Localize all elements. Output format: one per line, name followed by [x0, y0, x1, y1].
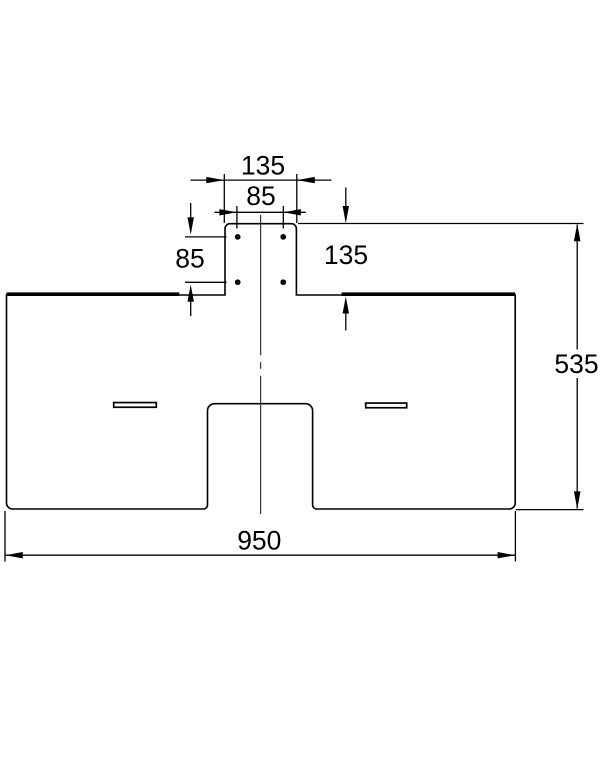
svg-text:135: 135 [241, 151, 285, 181]
hole top-right [280, 234, 286, 240]
dimension 135 top [191, 151, 332, 223]
svg-text:535: 535 [554, 349, 598, 379]
top edge thick flange left [7, 292, 180, 296]
svg-text:85: 85 [175, 243, 204, 273]
hole bottom-left [235, 279, 241, 285]
hole top-left [235, 234, 241, 240]
svg-text:135: 135 [324, 240, 368, 270]
svg-text:950: 950 [237, 526, 281, 556]
svg-text:85: 85 [246, 181, 275, 211]
hole bottom-right [280, 279, 286, 285]
slot right [366, 403, 407, 408]
center line [260, 215, 262, 514]
slot left [114, 403, 157, 408]
top edge thick flange right [342, 292, 516, 296]
dimension 85 left [175, 203, 226, 316]
dimension 135 right [298, 188, 584, 331]
dimension 950 bottom [5, 511, 515, 562]
dimension 535 right [516, 224, 599, 510]
dimension 85 top [215, 181, 306, 229]
plate outline [7, 224, 516, 509]
